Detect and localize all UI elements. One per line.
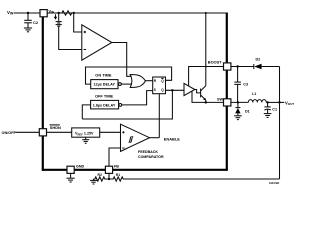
node emitter SW junction [205,101,207,103]
svg-text:ON TIME: ON TIME [95,73,112,78]
capacitor C2 [27,13,29,20]
wire battery to comparator minus [59,26,82,49]
node Q output junction [171,89,173,91]
resistor internal on VIN rail [59,11,74,15]
one-shot OFF TIME delay box [91,100,119,109]
wire comparator output to OR gate [112,43,131,77]
svg-text:ENABLE: ENABLE [164,137,180,142]
svg-text:VREF 1.25V: VREF 1.25V [75,132,94,137]
op-amp U2 feedback comparator [121,124,150,151]
svg-text:R2: R2 [98,173,102,177]
pin SW [224,99,231,106]
wire ON TIME output to OR gate [121,83,131,85]
node divider junction [108,178,110,180]
svg-text:C1: C1 [272,107,277,111]
svg-text:1934 BD: 1934 BD [269,181,279,185]
wire L1 to VOUT [266,101,279,103]
wire VREF to feedback comparator plus [100,131,121,133]
svg-text:GND: GND [76,164,85,168]
flip-flop RS latch [153,77,166,94]
OR gate [130,75,145,88]
node boost cap junction [236,65,238,67]
wire SHDN to VREF box [47,131,72,133]
wire OFF TIME input riser [82,105,90,119]
transistor Q1 NPN power switch [200,89,202,98]
wire resistor node to comparator plus [74,13,82,32]
ground under GND pin [70,173,72,177]
one-shot ON TIME delay box [91,80,118,89]
wire feedback comparator output ENABLE [150,137,160,139]
node VOUT junction [278,101,280,103]
wire emitter to SW [205,100,207,102]
wire D2 to VOUT rail [262,66,280,68]
svg-text:FB: FB [114,164,119,168]
IC outline top edge / VIN rail [47,12,227,14]
pin BOOST [224,63,231,70]
wire BOOST external [231,66,254,68]
svg-text:D2: D2 [256,57,261,61]
resistor R1 [109,177,125,181]
svg-text:VOUT: VOUT [285,100,294,106]
IC outline right edge [226,13,228,171]
IC outline left edge [42,17,44,171]
svg-text:FEEDBACK: FEEDBACK [138,150,158,154]
wire bottom feedback bus [82,90,172,119]
node boost wire crossing [205,66,207,68]
wire driver to base [195,90,201,93]
wire OFF TIME output to FF S input [122,91,153,105]
wire VOUT rail vertical upper [279,67,281,103]
capacitor C3 boost [237,67,239,82]
inductor L1 [248,100,266,103]
pin SHDN [39,129,46,136]
ground under D1 [234,115,242,117]
svg-text:BOOST: BOOST [208,60,222,65]
reference box VREF 1.25V [72,128,100,137]
node output cap junction [266,101,268,103]
wire collector to VIN rail [205,13,207,86]
pin GND [67,166,74,173]
wire SW rail to driver bottom [192,91,224,102]
capacitor C1 output [267,102,269,106]
wire FB to feedback comparator minus [109,148,121,166]
reference battery [58,13,60,21]
node collector rail junction [205,12,207,14]
svg-text:SW: SW [217,97,223,101]
node SW diode junction [237,101,239,103]
IC outline bottom edge [42,169,228,171]
inverter bubble ON TIME output [119,83,122,86]
svg-text:S: S [154,88,156,92]
wire OR output to FF R input [145,80,152,82]
wire SHDN external [16,131,40,133]
svg-text:D1: D1 [245,109,250,113]
wire R1 to VOUT rail [125,178,280,180]
wire VIN input [14,12,41,14]
pin FB [105,166,112,173]
svg-text:ON/OFF: ON/OFF [2,131,17,135]
svg-text:1.8µs DELAY: 1.8µs DELAY [93,104,116,108]
node battery branch [58,12,60,14]
ground under VREF box [85,137,87,139]
diode D2 bootstrap [253,64,255,69]
svg-text:COMPARATOR: COMPARATOR [138,155,164,159]
svg-text:L1: L1 [252,92,256,96]
wire FF Q output to driver [166,89,185,91]
driver buffer [184,83,195,95]
inverter bubble OFF TIME output [119,104,122,107]
resistor R2 [94,177,110,181]
op-amp U1 main comparator [82,25,112,60]
wire FF Q-bar feedback to ON TIME input [86,67,172,84]
svg-text:VIN: VIN [49,8,55,14]
wire FB to divider [108,173,110,179]
svg-text:OFF TIME: OFF TIME [95,94,114,99]
wire VOUT stub [280,101,285,103]
node comparator plus branch [73,12,75,14]
wire SW external [231,101,248,103]
ground under C1 [264,113,272,115]
ground under C2 [24,27,32,29]
hysteresis symbol [129,136,134,142]
svg-text:SHDN: SHDN [50,125,61,130]
wire BOOST to driver top [189,67,224,87]
diode D1 catch [237,102,239,107]
svg-text:12µs DELAY: 12µs DELAY [94,83,116,87]
current source arrow [55,14,57,17]
svg-text:C2: C2 [33,20,39,25]
ground under R2 [93,179,95,180]
node input cap junction [27,12,29,14]
pin VIN [40,10,47,17]
svg-text:R1: R1 [116,173,120,177]
svg-text:C3: C3 [243,83,248,87]
wire VOUT rail vertical lower [279,102,281,179]
wire enable riser FF bottom to feedback comparator [158,94,160,138]
svg-text:VIN: VIN [7,10,14,16]
